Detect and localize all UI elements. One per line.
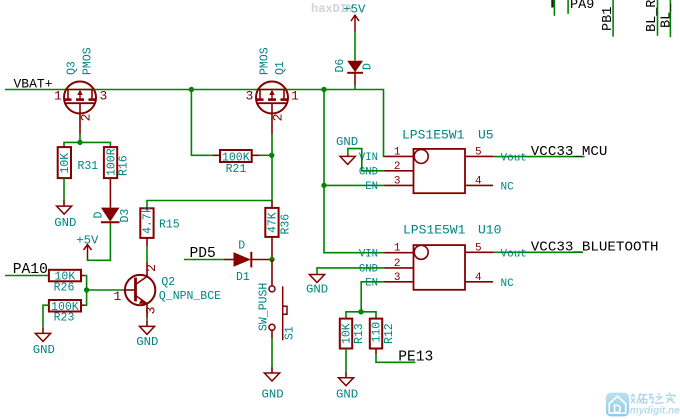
svg-text:EN: EN [365,181,378,193]
wire U5 Vout [493,156,585,158]
U10 pin 2 [385,267,414,269]
svg-text:GND: GND [136,335,158,349]
svg-text:mydigit.net: mydigit.net [630,405,680,416]
svg-text:R21: R21 [226,163,247,176]
junction D1/R36/S1 [269,257,274,262]
svg-text:4: 4 [475,175,482,187]
U5 pin 5 [465,155,493,157]
svg-text:+5V: +5V [76,233,99,247]
transistor Q1 PMOS [256,82,289,135]
svg-text:LPS1E5W1: LPS1E5W1 [403,223,466,238]
svg-text:R23: R23 [54,312,75,325]
svg-text:R16: R16 [117,155,130,176]
wire R31 to GND [63,178,65,200]
svg-text:3: 3 [246,89,254,104]
svg-text:2: 2 [271,114,286,122]
svg-text:BL_R: BL_R [645,0,660,32]
resistor R15 [140,208,153,238]
wire R15 to Q2 collector [146,238,148,246]
svg-text:Q3: Q3 [66,61,79,75]
partial label tick [551,0,553,8]
svg-text:3: 3 [100,89,108,104]
wire PA10 [5,275,49,277]
svg-text:3: 3 [394,175,401,187]
svg-text:D: D [362,63,375,70]
svg-text:2: 2 [394,258,401,270]
svg-text:D6: D6 [334,59,347,73]
wire U10 EN down [361,282,384,312]
svg-text:VCC33_MCU: VCC33_MCU [531,144,608,160]
svg-text:R15: R15 [159,219,180,232]
wire stub PA9 [567,0,569,14]
wire base [87,289,126,291]
svg-text:47K: 47K [267,212,280,233]
svg-text:D: D [92,212,105,219]
svg-text:4: 4 [475,272,482,284]
svg-text:BL_: BL_ [660,3,675,28]
ground R13 [338,378,353,386]
ground U10 [309,275,324,283]
wire R21 to Q1 drain node [252,154,259,156]
svg-text:1: 1 [394,146,401,158]
svg-text:3: 3 [394,272,401,284]
U5 pin 1 [385,155,414,157]
svg-text:4.7k: 4.7k [142,206,155,234]
diode D1 [234,252,251,266]
svg-text:1: 1 [394,243,401,255]
wire gate branch to R21 [191,90,213,156]
svg-text:R31: R31 [78,160,99,173]
svg-text:1: 1 [291,89,299,104]
wire stub BL_ [669,0,671,37]
wire vertical to U10 VIN [324,90,385,253]
resistor R16 [104,147,117,178]
svg-text:GND: GND [33,343,55,357]
svg-text:PMOS: PMOS [82,47,95,75]
svg-text:GND: GND [336,387,358,401]
U5 pin 2 [385,170,414,172]
junction at bus x191 [189,87,194,92]
wire EN U5 [324,184,385,186]
transistor Q2 NPN [125,262,155,318]
svg-text:NC: NC [501,181,515,193]
resistor R23 [49,300,81,312]
svg-text:U10: U10 [478,223,501,238]
wire R13 to GND [345,349,347,372]
svg-text:LPS1E5W1: LPS1E5W1 [402,128,465,143]
svg-text:D3: D3 [119,209,132,223]
svg-text:PE13: PE13 [398,350,433,366]
junction Q3 drain [77,140,82,145]
resistor R31 [58,147,71,178]
svg-text:PB1: PB1 [601,7,616,31]
svg-text:10K: 10K [341,323,354,344]
svg-text:Vout: Vout [501,153,527,165]
U5 pin 4 [465,184,493,186]
resistor R21 [220,150,252,162]
U10 pin 3 [385,281,414,283]
power +5V (D3) [84,245,92,259]
U10 pin 4 [465,281,493,283]
U5 pin 3 [385,184,414,186]
wire U5 gnd hook [348,149,385,171]
diode D6 [347,61,363,72]
svg-text:U5: U5 [478,128,494,143]
svg-text:D: D [238,240,245,253]
svg-text:VBAT+: VBAT+ [14,77,53,92]
U10 pin 5 [465,251,493,253]
wire R16 to D3 [109,178,111,208]
wire divider top [346,312,376,319]
svg-text:Q2: Q2 [161,276,175,289]
wire R23 to GND [43,305,49,327]
svg-text:Q_NPN_BCE: Q_NPN_BCE [159,290,221,303]
wire stub PA9 col1 [553,0,555,16]
transistor Q3 PMOS [64,82,97,135]
ground U5 [340,156,355,164]
svg-text:R12: R12 [383,323,396,344]
svg-text:1: 1 [54,89,62,104]
svg-text:R13: R13 [353,323,366,344]
svg-text:3: 3 [144,307,159,315]
svg-text:GND: GND [54,216,76,230]
svg-text:D1: D1 [236,271,250,284]
wire Q1 drain down [147,134,272,208]
svg-text:GND: GND [306,283,328,297]
wire R26 to base node [81,275,85,277]
switch S1 SW_PUSH [269,286,287,340]
wire D1 to node [252,259,272,261]
ground Q2 [140,326,155,334]
svg-text:R36: R36 [280,214,293,235]
wire U10 gnd [317,268,385,275]
wire stub PB1 [612,0,614,37]
svg-text:SW_PUSH: SW_PUSH [258,283,271,331]
junction base node [84,287,89,292]
wire VBAT+ bus [5,90,385,157]
resistor R26 [49,270,81,282]
wire R12 to PE13 [375,349,377,355]
watermark mydigit logo [606,393,680,417]
ground R31 [57,206,72,214]
svg-text:5: 5 [475,146,482,158]
resistor R12 [370,319,382,349]
svg-text:NC: NC [501,278,515,290]
wire PD5 [184,259,224,261]
svg-text:EN: EN [365,278,378,290]
ground S1 [264,373,279,381]
wire U10 Vout [493,251,583,253]
svg-text:PMOS: PMOS [259,47,272,75]
svg-text:2: 2 [144,264,159,272]
svg-text:VCC33_BLUETOOTH: VCC33_BLUETOOTH [531,240,659,256]
svg-text:Q1: Q1 [274,61,287,75]
junction EN divider [358,309,363,314]
svg-text:2: 2 [394,161,401,173]
junction at bus x324 [321,87,326,92]
resistor R36 [265,208,278,237]
junction R21/Q1 [269,153,274,158]
svg-text:5: 5 [475,242,482,254]
U10 pin 1 [385,252,414,254]
svg-text:GND: GND [262,388,284,402]
diode D3 [101,208,120,222]
wire R36 top stem [271,201,273,208]
svg-text:GND: GND [336,135,358,149]
wire stub BL_R [657,0,659,36]
svg-text:GND: GND [359,264,378,276]
svg-text:1: 1 [114,289,122,304]
svg-text:D: D [613,402,622,416]
svg-text:2: 2 [79,114,94,122]
svg-text:PA9: PA9 [570,0,594,13]
wire Q3 drain to R31/R16 [64,134,80,147]
wire R36 to D1 node [271,237,273,260]
svg-text:10K: 10K [59,153,72,174]
svg-text:110: 110 [371,322,384,343]
svg-text:R26: R26 [54,282,75,295]
wire D3 to +5V [88,223,111,260]
svg-text:S1: S1 [284,326,297,340]
wire R23 to base node [81,304,85,306]
wire S1 to GND [271,330,273,338]
svg-text:Vout: Vout [501,248,527,260]
wire node to switch [271,260,273,286]
junction EN U5 [321,183,326,188]
wire Q2 emitter to GND [146,318,148,320]
resistor R13 [340,319,352,349]
ground R23 [35,333,50,341]
svg-text:VIN: VIN [359,249,378,261]
